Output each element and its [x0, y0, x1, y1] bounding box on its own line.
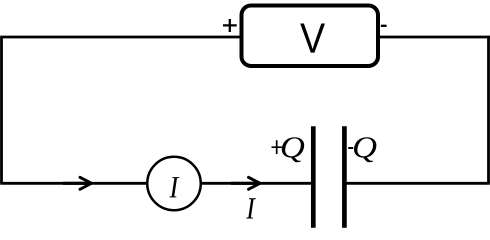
- charge label +Q : Q (italic): [282, 137, 304, 162]
- wire: left vertical segment: [0, 37, 3, 183]
- charge label +Q : plus: [272, 140, 282, 154]
- voltmeter V1 rounded box: [242, 6, 379, 67]
- current arrow 1 shaft (bottom-left wire): [63, 182, 90, 185]
- wire: top-right horizontal segment (from - terminal of V): [378, 36, 490, 39]
- minus sign at voltmeter right terminal: [381, 25, 387, 27]
- wire: ammeter to capacitor left plate: [202, 182, 312, 185]
- ammeter A1 circle: [147, 157, 201, 211]
- charge label -Q : Q (italic): [354, 137, 376, 162]
- ammeter label I (italic): [169, 177, 179, 197]
- voltmeter label V: [300, 23, 325, 52]
- current arrow 1 head: [80, 177, 92, 189]
- wire: bottom-left horizontal segment (into ammeter): [0, 182, 146, 185]
- current label I below arrow 2: [246, 198, 256, 218]
- current arrow 2 head: [249, 177, 261, 189]
- capacitor C1 left plate: [311, 126, 316, 228]
- wire: top-left horizontal segment (to + terminal of V): [0, 36, 241, 39]
- current arrow 2 shaft (wire into capacitor): [231, 182, 259, 185]
- charge label -Q : minus: [348, 147, 353, 149]
- wire: right vertical segment: [487, 36, 490, 184]
- plus sign at voltmeter left terminal: [223, 19, 237, 32]
- wire: capacitor right plate to right vertical: [347, 182, 490, 185]
- capacitor C1 right plate: [342, 126, 347, 228]
